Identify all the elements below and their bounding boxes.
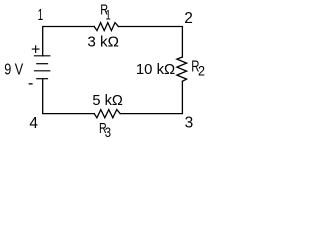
svg-text:4: 4 xyxy=(29,115,38,132)
svg-text:-: - xyxy=(28,74,34,92)
svg-text:3: 3 xyxy=(105,124,111,140)
svg-text:3 kΩ: 3 kΩ xyxy=(87,34,119,50)
svg-text:+: + xyxy=(31,42,40,59)
svg-text:1: 1 xyxy=(38,7,44,24)
svg-text:9 V: 9 V xyxy=(4,62,24,79)
svg-text:10 kΩ: 10 kΩ xyxy=(136,62,175,78)
svg-text:2: 2 xyxy=(198,63,205,79)
svg-text:1: 1 xyxy=(106,6,111,22)
svg-text:3: 3 xyxy=(185,115,194,132)
svg-text:2: 2 xyxy=(184,10,193,27)
svg-text:5 kΩ: 5 kΩ xyxy=(92,93,123,109)
